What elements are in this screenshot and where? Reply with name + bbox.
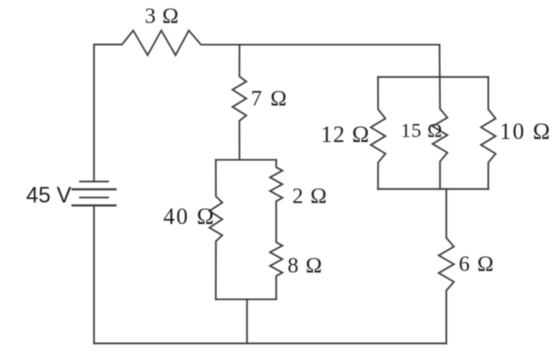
svg-text:40 Ω: 40 Ω	[163, 204, 215, 229]
svg-text:12 Ω: 12 Ω	[321, 122, 370, 147]
svg-text:15 Ω: 15 Ω	[401, 120, 443, 142]
svg-text:6 Ω: 6 Ω	[459, 251, 495, 276]
svg-text:7 Ω: 7 Ω	[251, 86, 288, 111]
svg-text:3 Ω: 3 Ω	[145, 3, 179, 28]
svg-text:10 Ω: 10 Ω	[500, 119, 552, 144]
svg-text:2 Ω: 2 Ω	[292, 183, 327, 208]
svg-text:45 V: 45 V	[26, 182, 72, 207]
svg-text:8 Ω: 8 Ω	[288, 253, 323, 278]
